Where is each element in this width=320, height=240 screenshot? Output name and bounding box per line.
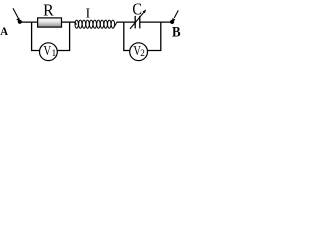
- wire V2 right branch: [147, 22, 161, 50]
- wire A to R: [20, 21, 38, 23]
- capacitor C plate 1: [134, 16, 136, 29]
- svg-text:C: C: [132, 0, 142, 18]
- capacitor C plate 2: [139, 16, 141, 29]
- wire V1 right branch: [57, 22, 70, 50]
- voltmeter V2: [130, 43, 148, 61]
- wire C to B: [140, 21, 172, 23]
- variable capacitor arrow: [130, 10, 146, 29]
- voltmeter V1: [40, 43, 58, 61]
- wire R to coil: [62, 21, 76, 23]
- svg-text:V: V: [44, 43, 52, 58]
- wire coil to C: [117, 21, 136, 23]
- terminal B dot: [170, 20, 174, 24]
- resistor R: [38, 18, 62, 27]
- svg-text:I: I: [86, 5, 91, 20]
- wire V2 left branch: [124, 22, 130, 50]
- terminal A dot: [18, 20, 22, 24]
- svg-text:A: A: [0, 24, 8, 38]
- svg-text:1: 1: [52, 49, 57, 59]
- svg-text:B: B: [172, 25, 181, 41]
- terminal A lead arrow: [13, 8, 20, 22]
- svg-text:2: 2: [140, 49, 145, 59]
- svg-text:R: R: [43, 0, 54, 19]
- terminal B lead arrow: [172, 10, 178, 22]
- inductor coil: [74, 20, 116, 28]
- wire V1 left branch: [32, 22, 40, 50]
